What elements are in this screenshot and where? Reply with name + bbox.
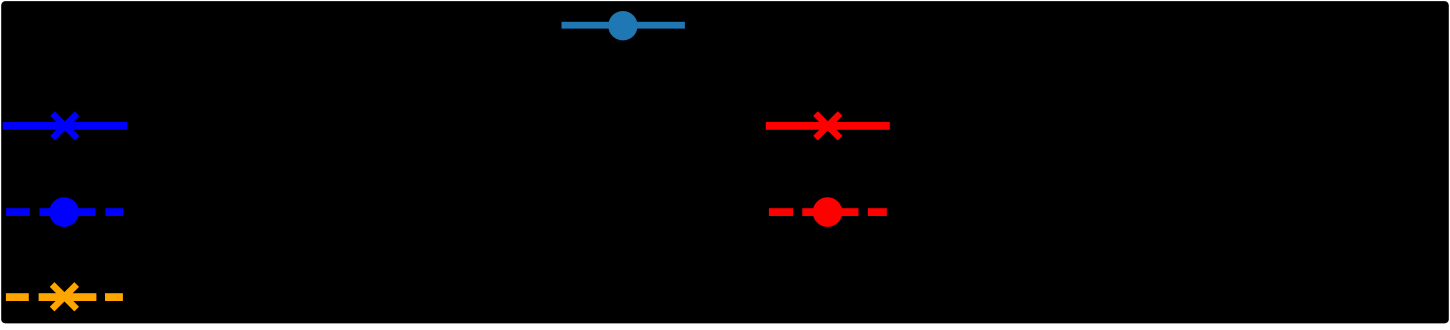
legend entry 1: tab:blue solid line — [562, 22, 685, 29]
legend entry 5: red dashed line — [769, 208, 887, 216]
legend entry 4: blue circle marker — [49, 197, 79, 227]
legend entry 3: red solid line — [766, 122, 890, 130]
legend entry 4: blue dashed line — [6, 208, 123, 216]
legend entry 3: red x marker — [816, 114, 841, 139]
legend entry 6: orange x marker — [52, 285, 77, 310]
legend entry 2: blue solid line — [3, 122, 127, 130]
legend entry 2: blue x marker — [53, 114, 78, 139]
legend entry 6: orange dashed line — [6, 293, 123, 301]
legend entry 5: red circle marker — [813, 197, 843, 227]
legend entry 1: tab:blue circle marker — [608, 11, 637, 40]
